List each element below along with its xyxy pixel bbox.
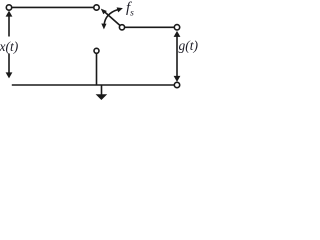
wire from middle contact to bottom rail [96, 53, 98, 85]
label x(t) [0, 40, 18, 54]
node: input top terminal (left) [6, 5, 11, 10]
node: grounded contact (middle) [94, 48, 99, 53]
node: switch fixed contact [94, 5, 99, 10]
node: switch pivot [119, 25, 124, 30]
arrowhead: g(t) output arrow down (at output bottom terminal) [174, 76, 181, 82]
arrowhead: x(t) source arrow down (at input bottom terminal) [6, 72, 13, 78]
wire bottom rail [12, 84, 174, 86]
wire switch pivot to output terminal [125, 26, 175, 28]
switch S1 arm (throw toward fixed contact) [105, 12, 120, 26]
arrowhead: toggle arc lower end (down) [101, 24, 106, 30]
wire right column (g(t) branch) [176, 34, 178, 79]
label g(t) [179, 39, 199, 53]
arrowhead: x(t) source arrow up (at input top terminal) [6, 11, 13, 17]
ground [96, 94, 108, 100]
wire left column upper segment (x(t) branch) [8, 14, 10, 37]
node: output bottom terminal (right) [174, 82, 179, 87]
label f_s (switching rate) [126, 1, 134, 19]
ground arrow below bottom rail [101, 85, 103, 95]
arrowhead: switch arm tip pointing at fixed contact [101, 9, 107, 15]
arrowhead: g(t) output arrow up (at output top terminal) [174, 31, 181, 37]
wire top rail [12, 6, 94, 8]
wire left column lower segment (x(t) branch) [8, 54, 10, 75]
arrowhead: toggle arc upper end (toward f_s) [117, 7, 123, 12]
toggle motion arc (sampling action) [104, 10, 118, 26]
node: output top terminal (right) [174, 25, 179, 30]
